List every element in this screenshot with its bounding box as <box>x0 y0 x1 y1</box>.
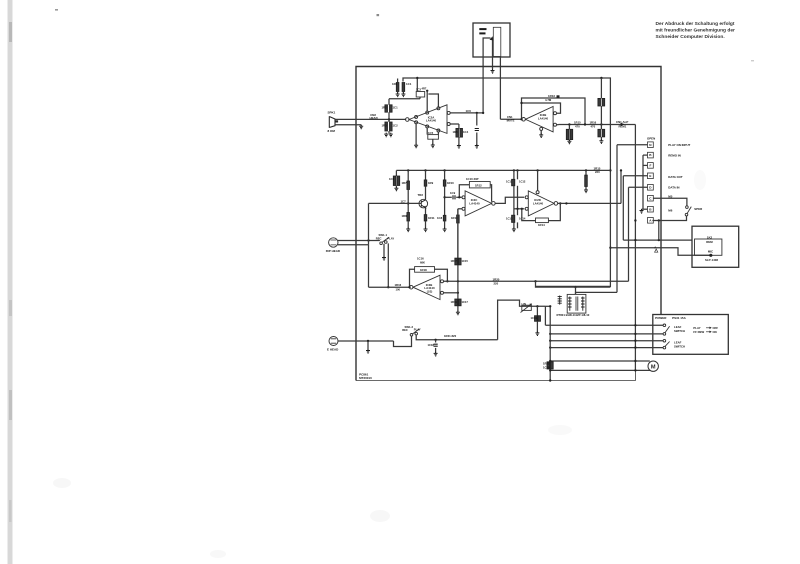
wire C4 bottom tap <box>419 97 421 99</box>
svg-text:1C13: 1C13 <box>506 217 513 221</box>
transistor Q1 (TR2) <box>419 199 428 208</box>
label CN3 <box>479 28 486 30</box>
svg-text:1C4: 1C4 <box>463 130 469 134</box>
wire to U5 input <box>369 286 411 288</box>
junction <box>565 202 567 204</box>
capacitor C9 C10 chain on rail <box>600 78 602 98</box>
resistor R21 emitter <box>424 215 427 221</box>
connector pin F2 <box>648 163 654 169</box>
svg-text:8 OM: 8 OM <box>328 129 336 133</box>
capacitor C24 to ground <box>536 306 538 315</box>
scan smudge <box>210 550 226 558</box>
svg-text:1R3: 1R3 <box>382 124 388 128</box>
svg-text:1C11: 1C11 <box>506 180 513 184</box>
remote jack contact dot <box>709 254 712 257</box>
wire erase head <box>338 340 394 342</box>
wire pin B riser <box>642 155 644 209</box>
svg-text:1R22: 1R22 <box>543 362 550 366</box>
wire to connector vertical <box>634 125 636 371</box>
svg-text:DATA OUT: DATA OUT <box>668 175 683 179</box>
svg-text:F: F <box>649 164 651 168</box>
svg-text:Der Abdruck der Schaltung erfo: Der Abdruck der Schaltung erfolgt <box>656 21 735 27</box>
U4 bias terminal top <box>536 191 539 194</box>
op-amp U3 (IC2C) triangle <box>465 191 492 216</box>
wire bias riser <box>498 300 546 340</box>
U2 output line <box>557 124 559 126</box>
wire pin C to speaker switch <box>653 198 687 206</box>
wire head to play/record bus <box>368 203 370 244</box>
supply rail +B top <box>403 78 610 286</box>
resistor R2 capacitor C2 above input line <box>388 99 390 105</box>
svg-text:220: 220 <box>595 170 600 174</box>
svg-text:1R19: 1R19 <box>451 300 458 304</box>
connector pin A7 <box>648 218 654 224</box>
svg-text:ON: ON <box>713 330 717 334</box>
svg-text:FF REW: FF REW <box>693 330 704 334</box>
bottom ground bus of board <box>356 370 635 380</box>
wire U2 bias to ground <box>540 130 542 134</box>
op-amp U1 (IC2A LA4140) triangle <box>409 105 447 134</box>
U3 feedback resistor R23 <box>459 185 469 198</box>
svg-text:1C10 33P: 1C10 33P <box>466 177 479 181</box>
capacitor C23 to ground <box>435 340 437 343</box>
capacitor C7 on output <box>476 113 478 126</box>
junction <box>609 169 611 171</box>
wire mic to amp input <box>335 118 406 120</box>
svg-text:MIC: MIC <box>708 249 714 253</box>
junction <box>457 280 459 282</box>
junction <box>600 77 602 79</box>
wire to remote box upper <box>623 239 692 241</box>
svg-text:(1/2): (1/2) <box>427 289 433 293</box>
svg-text:HEAD: HEAD <box>370 116 378 120</box>
wire pin B2 ground <box>642 208 648 210</box>
junction <box>367 340 369 342</box>
op-amp U2 (IC2B LA4140) triangle <box>525 107 553 132</box>
wire CN3 pin2 down to ground <box>492 39 494 70</box>
wire transformer secondary to connector <box>576 291 618 293</box>
svg-text:MT30010: MT30010 <box>359 376 372 380</box>
svg-text:LA4140: LA4140 <box>538 116 549 120</box>
svg-text:SPKR: SPKR <box>694 207 703 211</box>
svg-text:1C20: 1C20 <box>543 365 550 369</box>
ground of divider <box>456 311 460 315</box>
svg-text:R/P HEAD: R/P HEAD <box>326 249 341 253</box>
wire U1 output upper <box>450 112 483 114</box>
U2 input terminals <box>554 112 557 115</box>
svg-text:1C9: 1C9 <box>450 191 456 195</box>
wire erase bias line <box>416 335 497 340</box>
power feed vertical <box>549 306 551 380</box>
svg-text:1C6: 1C6 <box>466 109 472 113</box>
svg-text:470: 470 <box>575 125 580 129</box>
erase head jack <box>329 337 338 346</box>
speaker switch contacts <box>686 206 689 209</box>
svg-text:1R2: 1R2 <box>382 106 388 110</box>
U1 output terminals right edge <box>447 111 450 114</box>
svg-text:PLAY ON INPUT: PLAY ON INPUT <box>668 143 690 147</box>
resistor R33 on divider <box>455 258 458 265</box>
junction <box>568 123 570 125</box>
svg-text:1C1: 1C1 <box>393 106 399 110</box>
svg-text:1R18: 1R18 <box>420 268 427 272</box>
svg-text:1C7: 1C7 <box>401 199 407 203</box>
ground of CN3 shield <box>491 69 495 73</box>
svg-text:LA4140: LA4140 <box>426 119 437 123</box>
scan speck <box>377 14 380 16</box>
wire oscillator feed down <box>544 306 546 325</box>
wire leaf1 upper <box>545 324 663 326</box>
U3 input terminals <box>462 196 465 199</box>
svg-text:220: 220 <box>494 282 499 286</box>
capacitor C12 R20 branch <box>444 170 446 180</box>
wire pin D <box>629 186 648 188</box>
junction <box>549 333 551 335</box>
svg-text:OPEN: OPEN <box>647 137 655 141</box>
svg-text:SWITCH: SWITCH <box>674 344 685 348</box>
wire transformer to supply return <box>575 287 577 294</box>
junction on riser <box>634 324 636 326</box>
DIN connector box CN3 <box>473 23 510 57</box>
wire CN1 to U2 <box>500 118 522 120</box>
U2 bias terminal <box>540 127 543 130</box>
svg-text:M: M <box>651 364 656 370</box>
connector pin B1 <box>648 152 654 158</box>
resistor R1 and capacitor C1 cluster at rail left end <box>396 83 399 92</box>
decoupling capacitors C14 C15 between stages <box>513 170 515 179</box>
U5 feedback loop R36 <box>410 269 415 287</box>
svg-text:1R7: 1R7 <box>402 181 408 185</box>
svg-text:1C15: 1C15 <box>462 259 469 263</box>
scan speck <box>751 60 754 61</box>
transformer windings <box>568 297 572 311</box>
resistor R25 <box>457 215 460 223</box>
svg-text:1C6: 1C6 <box>389 177 395 181</box>
connector pin E3 <box>648 173 654 179</box>
svg-text:REC: REC <box>402 328 408 332</box>
svg-text:PLAY: PLAY <box>387 237 394 241</box>
scan smudge <box>370 510 390 522</box>
connector pin D4 <box>648 185 654 191</box>
U5 input terminal <box>409 285 413 289</box>
resistor R5 capacitor C8 to ground <box>458 124 460 128</box>
wire CN3 pin1 down <box>483 38 490 113</box>
coupling capacitor C9 to U3 <box>445 196 452 198</box>
svg-text:SPK1: SPK1 <box>328 110 336 114</box>
svg-text:1C14: 1C14 <box>519 217 526 221</box>
wire U1 output lower <box>450 123 459 125</box>
U1 pin terminals top slant <box>415 115 418 118</box>
divider rail <box>457 209 459 312</box>
motor M1 <box>648 361 658 371</box>
svg-text:PS31 15A: PS31 15A <box>672 316 687 320</box>
inner shield rect of CN3 <box>493 27 501 56</box>
switch SW1-2 <box>410 334 413 337</box>
wire pin E <box>623 175 647 177</box>
svg-text:4.7M: 4.7M <box>545 98 552 102</box>
U3 lower input network <box>458 208 462 210</box>
U3 output terminal <box>492 202 496 206</box>
svg-text:1R5: 1R5 <box>453 130 459 134</box>
record/play head jack <box>329 238 338 247</box>
svg-text:RT801 BHD-1112P-1/8-10: RT801 BHD-1112P-1/8-10 <box>557 313 590 317</box>
svg-text:1R8: 1R8 <box>402 214 408 218</box>
remote jack box SLP-1408 <box>692 226 739 267</box>
wire head upper terminal <box>338 240 380 242</box>
capacitor C16 C17 second chain <box>517 170 519 179</box>
wire motor upper <box>550 360 650 362</box>
svg-text:1R12: 1R12 <box>475 183 482 187</box>
svg-text:E: E <box>649 174 651 178</box>
svg-text:1C1: 1C1 <box>406 82 412 86</box>
svg-text:1R17: 1R17 <box>451 259 458 263</box>
svg-text:1R10: 1R10 <box>447 181 454 185</box>
svg-text:1C18: 1C18 <box>428 343 435 347</box>
wire pin A drop <box>658 221 660 241</box>
wire U1 pin5 to ground <box>415 124 417 145</box>
U4 output terminal <box>554 202 558 206</box>
junction <box>658 239 660 241</box>
wire emitter down <box>425 208 427 215</box>
resistor R19 collector load <box>425 170 427 180</box>
wire leaf2 lower <box>550 347 663 349</box>
U2 feedback resistor R13 loop <box>522 98 586 125</box>
resistor R35 on divider <box>455 299 458 306</box>
switch SW1-1 <box>380 242 383 245</box>
junction base divider <box>407 202 409 204</box>
svg-text:1C19: 1C19 <box>531 316 538 320</box>
svg-text:LA4140: LA4140 <box>533 201 544 205</box>
connector pin C5 <box>648 195 654 201</box>
svg-text:PLAY: PLAY <box>414 328 421 332</box>
svg-text:1R13: 1R13 <box>451 216 458 220</box>
svg-text:REC: REC <box>376 237 382 241</box>
resistor R45 across motor lines <box>547 362 550 369</box>
junction <box>476 112 478 114</box>
wire to erase switch <box>394 336 412 346</box>
svg-text:TR2: TR2 <box>418 193 424 197</box>
wire U4 bias to rail <box>537 170 539 190</box>
wire U4 lower input <box>514 208 524 210</box>
capacitor C5 under U1 <box>426 128 428 135</box>
svg-text:4R7: 4R7 <box>422 86 427 90</box>
svg-text:1C17: 1C17 <box>462 300 469 304</box>
svg-text:1R1: 1R1 <box>392 82 398 86</box>
speaker/mic jack SPK1 <box>329 116 335 128</box>
U5 lower output to divider rail <box>444 292 458 294</box>
svg-text:1C16: 1C16 <box>417 256 424 260</box>
oscillator transformer primary winding <box>558 296 562 305</box>
resistor R17 chain <box>407 170 409 181</box>
svg-text:POWER: POWER <box>655 316 667 320</box>
svg-text:1R9: 1R9 <box>428 181 434 185</box>
U5 output terminals <box>441 280 444 283</box>
wire remote lower <box>610 248 710 256</box>
wire mic return to ground <box>335 124 361 126</box>
wire loop to U1 pin 2 <box>428 94 438 107</box>
connector pin B6 <box>648 206 654 212</box>
credit note text <box>656 21 736 40</box>
wire switch to pin A <box>652 216 686 221</box>
junction <box>658 219 660 221</box>
resistor R29 on rail <box>585 170 587 175</box>
svg-text:REM: REM <box>706 240 713 244</box>
oscillator transformer RT801 box <box>567 294 586 313</box>
svg-text:1C8: 1C8 <box>437 216 443 220</box>
svg-text:A: A <box>654 245 656 249</box>
svg-text:M6: M6 <box>668 209 672 213</box>
svg-text:MUTE: MUTE <box>507 119 515 123</box>
wire bias line above U1 <box>389 98 420 100</box>
op-amp U5 (IC2E) triangle <box>413 275 440 299</box>
junction <box>407 169 409 171</box>
U4 feedback resistor R27 below <box>522 209 536 221</box>
junction <box>536 305 538 307</box>
wire CN3 pin3 down <box>499 57 501 119</box>
wire base input from head <box>369 202 422 204</box>
wire pin N <box>617 144 648 146</box>
svg-text:1R16: 1R16 <box>395 283 402 287</box>
svg-text:REMO IN: REMO IN <box>668 154 680 158</box>
svg-text:1C5: 1C5 <box>428 131 434 135</box>
U3 output wire to U4 <box>495 197 525 203</box>
power switch box <box>653 315 729 355</box>
svg-text:1K2: 1K2 <box>707 235 713 239</box>
svg-text:Schneider Computer Division.: Schneider Computer Division. <box>656 34 726 40</box>
wire motor lower <box>550 369 650 371</box>
wire pin N riser <box>616 145 618 293</box>
svg-text:100: 100 <box>396 287 401 291</box>
arrow to remote <box>621 123 625 127</box>
main board outline <box>356 67 661 381</box>
wire pin F <box>643 164 648 166</box>
U4 input terminals <box>525 196 528 199</box>
svg-text:1C2: 1C2 <box>393 124 399 128</box>
wire up to rail <box>620 170 622 203</box>
wire rail to C4 <box>416 78 418 92</box>
op-amp U4 (IC2D) triangle <box>528 191 554 216</box>
wire to oscillator cap <box>545 305 550 307</box>
U1 pin terminals bottom slant <box>415 121 418 124</box>
shield ground stub <box>360 124 362 127</box>
svg-text:1R14: 1R14 <box>538 223 545 227</box>
U4 output wire <box>557 202 621 204</box>
U2 feedback inner loop to input <box>522 103 561 113</box>
capacitor C4 box <box>416 92 425 98</box>
svg-text:LA4140: LA4140 <box>469 201 480 205</box>
svg-text:470: 470 <box>591 125 596 129</box>
label A arrow <box>655 249 658 252</box>
svg-text:mit freundlicher Genehmigung d: mit freundlicher Genehmigung der <box>656 28 736 34</box>
middle supply rail <box>396 169 610 171</box>
wire pin E riser <box>622 176 624 240</box>
connector pin N0 <box>648 142 654 148</box>
wire switch common to ground <box>383 244 385 257</box>
wire leaf2 upper <box>550 340 663 342</box>
junction <box>426 90 428 92</box>
scan speck <box>55 9 58 11</box>
svg-text:E HEAD: E HEAD <box>327 348 339 352</box>
remote jack inner box <box>695 239 722 255</box>
svg-text:SLP-1408: SLP-1408 <box>705 258 718 262</box>
svg-text:SW1-1: SW1-1 <box>379 233 388 237</box>
leaf switch 1 contacts <box>663 324 666 327</box>
scan smudge <box>548 425 572 435</box>
resistor R14 to ground <box>568 125 570 130</box>
junction <box>549 360 551 362</box>
junction <box>367 239 369 241</box>
svg-text:DATA IN: DATA IN <box>668 186 679 190</box>
scan smudge <box>694 170 706 190</box>
capacitor C11 at rail left end <box>395 170 397 176</box>
svg-text:SW1-2: SW1-2 <box>405 325 414 329</box>
ground stub erase head <box>367 341 369 350</box>
resistor R18 <box>407 213 410 222</box>
U2 output terminal <box>522 118 526 122</box>
wire pin B1 <box>643 154 648 156</box>
wire C4 to U1 pin <box>426 91 428 112</box>
scanner page edge band <box>8 0 13 564</box>
svg-text:SWITCH: SWITCH <box>674 329 685 333</box>
svg-text:1C12: 1C12 <box>519 180 526 184</box>
scan smudge <box>53 478 71 488</box>
svg-text:1R21 820: 1R21 820 <box>444 334 457 338</box>
junction <box>549 369 551 371</box>
svg-text:1R11: 1R11 <box>428 216 435 220</box>
junction <box>443 196 445 198</box>
resistor R3 capacitor C3 below input line <box>388 120 390 123</box>
wire leaf1 lower <box>550 333 663 335</box>
supply return wire <box>536 281 611 287</box>
U1 input terminal <box>406 118 410 122</box>
wire head lower terminal <box>338 244 369 246</box>
wire switch to U5 input line <box>387 243 389 287</box>
svg-text:68K: 68K <box>420 260 425 264</box>
wire pin D riser <box>628 187 630 281</box>
leaf switch 2 contacts <box>663 339 666 342</box>
U5 output line to bias network <box>444 280 629 282</box>
junction <box>434 339 436 341</box>
svg-text:REM1: REM1 <box>619 125 627 129</box>
